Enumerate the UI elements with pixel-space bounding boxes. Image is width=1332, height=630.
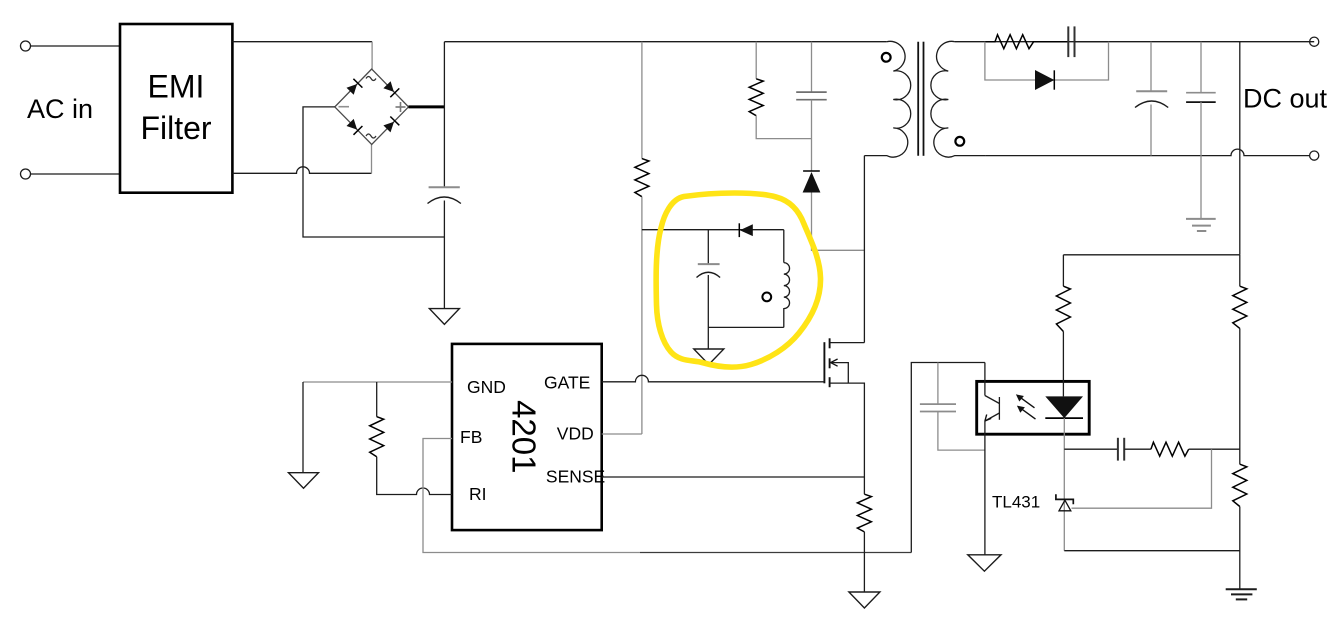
annotation yellow highlight loop xyxy=(656,193,820,367)
svg-text:DC out: DC out xyxy=(1243,84,1328,114)
wire output cap1 stub xyxy=(1150,42,1152,92)
svg-text:GND: GND xyxy=(467,377,506,397)
wire snubber resistor bottom xyxy=(756,116,811,139)
node primary phase dot xyxy=(882,53,891,62)
wire EMI top output xyxy=(232,41,372,43)
wire opto bypass cap bottom xyxy=(938,412,985,451)
wire aux cap bottom to ground node xyxy=(707,275,709,349)
resistor R6 LED series xyxy=(1056,286,1070,331)
svg-text:Filter: Filter xyxy=(140,110,211,146)
bridge plus sign xyxy=(396,102,406,112)
node DC terminal top xyxy=(1310,37,1319,46)
resistor R3 output snubber (horizontal) xyxy=(985,35,1068,49)
resistor R8 divider upper xyxy=(1233,286,1247,328)
TL431 U4 shunt regulator xyxy=(1063,499,1065,550)
wire snubber cap to diode xyxy=(811,100,813,171)
resistor R1 startup xyxy=(635,159,649,197)
ground aux xyxy=(694,349,724,365)
wire LED cathode down to TL431 xyxy=(1063,418,1065,499)
wire opto bypass cap top stub xyxy=(937,363,939,405)
ground opto emitter xyxy=(968,555,1001,571)
wire bridge plus output (thick) xyxy=(409,105,445,108)
bridge diode D-BL xyxy=(347,119,358,130)
wire SENSE pin to source node xyxy=(602,476,865,478)
svg-text:VDD: VDD xyxy=(557,424,594,444)
svg-text:RI: RI xyxy=(469,484,487,504)
wire snubber cap to rail xyxy=(1075,41,1109,43)
capacitor C9 compensation (series) xyxy=(1118,438,1124,461)
wire DC bus vertical at bulk cap xyxy=(443,42,445,188)
wire divider lower to ground xyxy=(1239,507,1241,590)
capacitor C5 output snubber (series) xyxy=(1068,26,1074,57)
optocoupler light arrows xyxy=(1018,396,1036,419)
wire AC bottom to EMI xyxy=(31,173,121,175)
wire VDD pin xyxy=(602,433,642,435)
diode D2 output rectifier (points right) xyxy=(1035,70,1054,90)
wire GND pin xyxy=(303,381,452,383)
wire TL431 ref path xyxy=(1072,449,1212,508)
resistor R5 current sense xyxy=(857,494,871,532)
wire secondary bottom rail with hop at FB line xyxy=(985,149,1309,156)
ground IC xyxy=(289,473,319,489)
wire snubber resistor top stub xyxy=(755,42,757,79)
capacitor C2 snubber xyxy=(796,92,827,100)
wire aux cap stub xyxy=(707,230,709,264)
wire EMI bottom output with hop over bridge minus wire xyxy=(232,167,371,174)
wire sense resistor stubs xyxy=(863,477,865,494)
wire compensation RC from opto cathode xyxy=(1064,448,1117,450)
node AC terminal bottom xyxy=(21,169,31,179)
svg-text:TL431: TL431 xyxy=(992,493,1040,512)
transformer T1 secondary winding xyxy=(931,41,985,157)
optocoupler LED (points down) xyxy=(1045,396,1083,418)
wire startup lower to VDD node xyxy=(641,197,643,434)
resistor R7 compensation (horizontal) xyxy=(1151,442,1189,456)
resistor R4 RI xyxy=(370,417,384,457)
MOSFET Q1 gate bar xyxy=(823,342,825,383)
bridge diode D-TL xyxy=(347,84,358,95)
wire GND to ground symbol xyxy=(302,382,304,473)
wire primary top rail xyxy=(444,41,886,43)
resistor R2 snubber xyxy=(749,79,763,116)
wire clamp diode anode to drain rail xyxy=(812,193,865,251)
capacitor C1 bulk (polarized) xyxy=(428,187,461,203)
wire MOSFET drain xyxy=(830,342,865,344)
wire secondary top lead xyxy=(955,41,985,43)
wire MOSFET source xyxy=(830,383,865,477)
EMI filter block U2 xyxy=(120,24,232,193)
wire AC top to EMI xyxy=(31,45,121,47)
bridge rectifier BR1 diamond xyxy=(335,69,409,144)
wire comp resistor to divider mid xyxy=(1189,448,1240,450)
bridge AC squiggle top xyxy=(366,77,376,81)
wire output cap2 stub xyxy=(1200,42,1202,93)
transformer T1 primary winding xyxy=(864,41,910,157)
node DC terminal bottom xyxy=(1310,151,1319,160)
svg-text:EMI: EMI xyxy=(148,69,205,105)
IC U1 4201 box xyxy=(452,344,602,530)
wire FB pin down and right to opto xyxy=(423,439,640,553)
optocoupler U3 box xyxy=(977,381,1089,434)
bridge minus sign xyxy=(339,106,350,108)
wire secondary top rail xyxy=(985,41,1314,43)
wire FB riser to opto collector xyxy=(911,363,985,553)
transformer T1 core xyxy=(918,42,923,156)
node AC terminal top xyxy=(21,41,31,51)
wire startup upper stub xyxy=(641,42,643,159)
bridge diode D-TR xyxy=(383,81,394,92)
wire feedback sense vertical from DC+ xyxy=(1239,42,1241,255)
node secondary phase dot xyxy=(955,137,964,146)
svg-text:4201: 4201 xyxy=(506,400,543,473)
wire bulk cap to ground xyxy=(443,201,445,309)
capacitor C7 Y-cap xyxy=(1186,93,1216,102)
wire Y-cap to earth xyxy=(1200,102,1202,219)
svg-text:AC in: AC in xyxy=(27,94,93,124)
wire opto emitter out of box xyxy=(984,421,986,555)
optocoupler phototransistor xyxy=(985,396,1000,422)
wire LED branch upper stub xyxy=(1062,255,1064,286)
MOSFET Q1 body connection with arrow xyxy=(831,363,848,384)
capacitor C4 aux (polarized) xyxy=(697,264,721,277)
wire output cap1 bottom xyxy=(1150,105,1152,156)
ground earth secondary xyxy=(1186,219,1216,231)
diode D1 clamp (points up) xyxy=(803,170,820,172)
svg-text:SENSE: SENSE xyxy=(546,467,605,487)
resistor R9 divider lower xyxy=(1233,464,1247,506)
wire primary bottom to MOSFET drain xyxy=(863,156,865,343)
node aux winding phase dot xyxy=(762,293,771,302)
wire comp cap to resistor xyxy=(1124,448,1151,450)
MOSFET Q1 channel segments xyxy=(829,338,831,387)
wire opto collector into box xyxy=(984,363,986,396)
wire EMI top to bridge top vertex xyxy=(371,42,373,69)
inductor L1 aux winding xyxy=(784,230,790,328)
wire divider top tie xyxy=(1063,254,1239,256)
svg-text:FB: FB xyxy=(460,427,482,447)
wire TL431 anode bottom tie xyxy=(1064,550,1240,552)
ground sense xyxy=(849,592,880,608)
wire divider upper stubs xyxy=(1239,255,1241,286)
capacitor C8 opto bypass xyxy=(920,404,956,411)
wire bridge minus to left xyxy=(303,107,444,237)
ground earth divider xyxy=(1226,589,1257,599)
bridge AC squiggle bottom xyxy=(366,134,376,138)
wire RI resistor to RI pin with hop over FB xyxy=(377,457,452,495)
diode D3 aux (points left) xyxy=(740,224,753,236)
wire snubber cap top stub xyxy=(811,42,813,92)
capacitor C6 output bulk (polarized) xyxy=(1135,91,1168,107)
svg-text:GATE: GATE xyxy=(544,372,590,392)
ground bulk xyxy=(429,309,459,325)
wire output diode branch xyxy=(985,42,1109,80)
bridge diode D-BR xyxy=(383,122,394,133)
wire aux winding bottom return xyxy=(708,326,784,328)
wire aux rail xyxy=(642,229,784,231)
wire LED series resistor to opto box xyxy=(1062,332,1064,397)
wire RI resistor top stub xyxy=(376,382,378,417)
wire bridge bottom vertex stub xyxy=(371,144,373,173)
wire GATE pin to MOSFET with hop over VDD line xyxy=(602,375,825,382)
